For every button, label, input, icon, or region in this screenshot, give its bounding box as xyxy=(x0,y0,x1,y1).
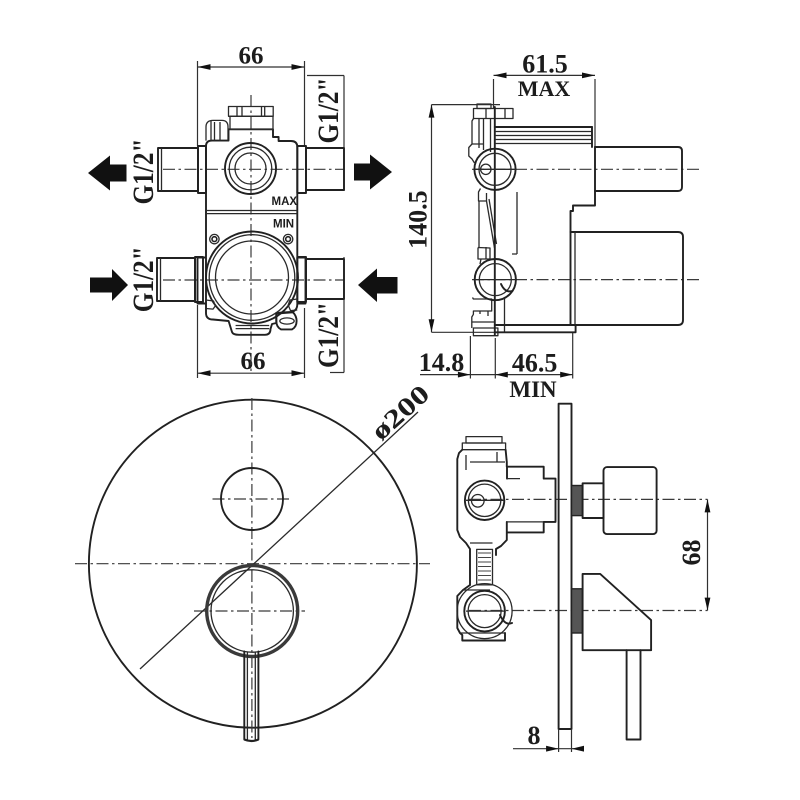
dimension 66 bottom xyxy=(198,305,305,378)
dimension 68 xyxy=(677,499,710,610)
pipe lower-left xyxy=(157,257,203,302)
bottom foot clip xyxy=(236,326,270,329)
upper stem through plate (dark) xyxy=(572,483,604,518)
right side boss xyxy=(297,258,305,304)
flange face line xyxy=(494,107,496,335)
upper port circles xyxy=(225,143,276,194)
lower outlet pipe xyxy=(571,232,684,325)
dimension 14.8 / 46.5 MIN xyxy=(419,332,573,402)
svg-text:MIN: MIN xyxy=(273,219,294,231)
centerline upper horizontal xyxy=(163,168,344,170)
upper knob xyxy=(604,467,657,534)
svg-text:MAX: MAX xyxy=(518,76,571,101)
centerline lower pipe xyxy=(472,279,700,281)
handle rod xyxy=(627,650,641,739)
flange top cap xyxy=(474,104,514,119)
handle lever xyxy=(244,652,258,742)
body top ribs xyxy=(495,127,592,144)
pipe upper-left xyxy=(158,146,206,193)
svg-text:140.5: 140.5 xyxy=(403,190,432,249)
svg-text:G1/2": G1/2" xyxy=(127,246,160,312)
valve body outline xyxy=(206,129,297,256)
svg-text:G1/2": G1/2" xyxy=(312,78,345,144)
lower pipe base line xyxy=(574,232,576,325)
flow arrow top-left (outlet, pointing left) xyxy=(88,156,127,191)
trim plate circle xyxy=(89,400,417,728)
bolt circle left xyxy=(210,234,219,243)
svg-text:14.8: 14.8 xyxy=(419,348,465,377)
mid adjuster cylinder xyxy=(477,549,493,585)
centerline upper pipe xyxy=(472,168,700,170)
svg-text:MIN: MIN xyxy=(509,377,557,402)
centerline handle xyxy=(194,610,305,612)
flange plate left profile xyxy=(469,119,497,329)
upper flange circle xyxy=(474,149,516,190)
flange neck lines xyxy=(472,119,517,333)
body upper block right edge xyxy=(571,127,596,232)
diverter knob circle xyxy=(221,468,283,530)
lower flange circle xyxy=(475,259,516,300)
top-left ear fitting xyxy=(206,120,228,140)
bottom-left lug xyxy=(206,300,215,309)
dimension 61.5 MAX xyxy=(494,50,596,148)
valve body side view xyxy=(457,450,555,641)
svg-text:66: 66 xyxy=(241,348,266,375)
wall plate xyxy=(559,404,572,729)
groove lines xyxy=(206,210,297,212)
svg-text:MAX: MAX xyxy=(272,196,298,208)
dimension 140.5 xyxy=(403,105,570,333)
bottom-right ear oval xyxy=(276,312,296,329)
bolt circle right xyxy=(283,234,292,243)
pipe upper-right xyxy=(297,146,344,193)
svg-text:68: 68 xyxy=(677,540,706,566)
upper body circle xyxy=(465,481,504,520)
dimension 8 plate thickness xyxy=(513,721,584,752)
label G1/2 bottom-right xyxy=(312,257,345,373)
flow arrow bottom-left (inlet, pointing right) xyxy=(90,269,128,301)
centerline diverter knob xyxy=(213,498,292,500)
bottom-right lug xyxy=(288,299,297,311)
centerline horizontal plate xyxy=(75,563,430,565)
centerline lower horizontal xyxy=(163,279,344,281)
body inner detail lines xyxy=(460,452,544,633)
lower stem through plate (dark) xyxy=(572,589,583,633)
svg-text:G1/2": G1/2" xyxy=(312,302,345,368)
svg-text:66: 66 xyxy=(239,43,264,70)
valve top stub xyxy=(462,437,505,450)
left side boss xyxy=(198,258,207,304)
flow arrow bottom-right (inlet, pointing left) xyxy=(358,269,398,303)
flow arrow top-right (outlet, pointing right) xyxy=(354,155,392,190)
handle ring xyxy=(207,566,298,657)
centerline upper knob xyxy=(469,498,708,500)
svg-text:46.5: 46.5 xyxy=(512,349,558,378)
bottom foot xyxy=(495,325,576,332)
top inlet stub xyxy=(229,107,274,130)
upper outlet pipe xyxy=(595,147,682,191)
cartridge big circles xyxy=(206,232,298,324)
svg-text:61.5: 61.5 xyxy=(522,50,568,79)
diameter leader line xyxy=(140,412,418,669)
handle escutcheon side view xyxy=(583,574,652,650)
svg-text:G1/2": G1/2" xyxy=(127,139,160,205)
svg-text:8: 8 xyxy=(528,721,541,750)
centerline vertical xyxy=(250,95,252,371)
flange bottom cap xyxy=(473,328,498,336)
dimension 66 top xyxy=(198,43,305,147)
label G1/2 top-right xyxy=(307,76,345,192)
lower body circle xyxy=(457,584,512,639)
centerline lower handle xyxy=(469,610,708,612)
centerline vertical plate xyxy=(251,398,253,738)
pipe lower-right xyxy=(297,257,344,302)
